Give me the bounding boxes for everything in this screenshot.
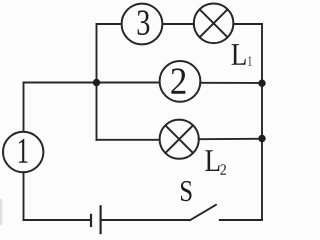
wire bottom branch left segment [97, 139, 160, 141]
wire switch contact to right bus [220, 219, 262, 221]
battery long plate [99, 205, 101, 234]
switch S blade [190, 205, 216, 221]
wire ammeter 3 to lamp L1 [162, 23, 193, 25]
wire lamp L2 to right bus [199, 138, 262, 140]
wire lamp L1 to right bus [233, 23, 262, 25]
label L2 [205, 150, 226, 174]
wire middle branch left segment [97, 82, 161, 84]
wire right bus vertical [261, 24, 263, 220]
label S [181, 181, 192, 201]
wire top branch left segment [97, 23, 122, 25]
node junction left [93, 79, 100, 86]
node junction right upper [258, 80, 265, 87]
wire battery to switch [101, 219, 190, 221]
wire left bus lower segment [23, 172, 25, 220]
wire left bus upper segment [23, 83, 25, 133]
wire bottom left (to battery) [24, 219, 92, 221]
wire top-left horizontal (left bus to junction) [24, 82, 97, 84]
lamp L1 [194, 4, 234, 44]
battery short plate [90, 214, 92, 227]
ammeter 3 [122, 4, 163, 45]
label L1 [232, 44, 252, 66]
wire left parallel bus vertical [96, 24, 98, 140]
ammeter 1 [3, 132, 43, 172]
ammeter 2 [160, 61, 201, 102]
node junction right lower [258, 135, 265, 142]
lamp L2 [160, 120, 199, 159]
wire ammeter 2 to right bus [200, 82, 262, 84]
